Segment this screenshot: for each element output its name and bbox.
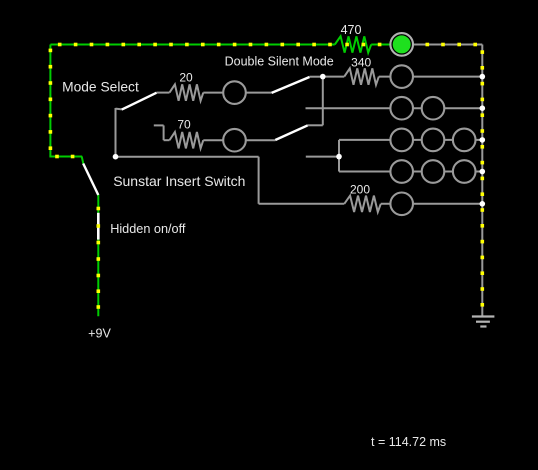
resistor R3 20: [170, 84, 204, 100]
wire S2b up-throw lead: [308, 124, 323, 126]
switch S1 Mode Select lever: [122, 93, 157, 110]
wire R2 to right rail: [379, 76, 483, 78]
wire S2a/S2b throw link vertical: [322, 77, 324, 126]
wire hook to R4: [164, 139, 170, 141]
wire S1 down-throw hook vertical: [163, 125, 165, 140]
junction right rail row2: [480, 74, 486, 80]
wire row5 to right rail: [339, 171, 482, 173]
svg-text:t = 114.72 ms: t = 114.72 ms: [371, 435, 446, 449]
wire left rail horizontal jog: [49, 156, 82, 158]
wire right rail vertical (ground net): [481, 45, 483, 316]
junction right rail row3: [480, 105, 486, 111]
wire S1 pivot stub: [116, 108, 122, 111]
junction right rail row4: [480, 137, 486, 143]
current dots right rail: [481, 66, 485, 307]
LED D1 (lit, green): [390, 33, 413, 56]
wire Sunstar net to R5: [259, 203, 345, 205]
junction right rail row5: [480, 169, 486, 175]
svg-text:470: 470: [341, 23, 362, 37]
ground: [472, 317, 495, 327]
junction Sunstar node: [113, 154, 119, 160]
svg-text:Double Silent Mode: Double Silent Mode: [225, 54, 334, 68]
junction node A (row2): [320, 74, 326, 80]
wire S1 up-throw to R3: [157, 92, 170, 94]
switch S3 Hidden on/off (closed): [97, 213, 100, 240]
LED D5: [390, 129, 413, 152]
svg-text:+9V: +9V: [88, 327, 111, 341]
svg-text:200: 200: [350, 182, 370, 196]
wire S2 down-throw lead: [306, 156, 339, 158]
wire to +9V rail: [97, 239, 99, 316]
wire LED1 to right rail: [413, 44, 482, 46]
LED D11: [390, 193, 413, 216]
LED D7: [453, 129, 476, 152]
wire R1 to LED1: [371, 44, 390, 46]
LED D2: [390, 65, 413, 88]
wire R5 to right rail: [381, 203, 483, 205]
LED D12: [223, 81, 246, 104]
current dots bottom supply: [97, 207, 101, 309]
LED D13: [223, 129, 246, 152]
LED D3: [390, 97, 413, 120]
wire above Hidden switch: [97, 195, 99, 214]
current dots left rail: [49, 49, 53, 150]
current dots LED1 to corner: [426, 43, 485, 54]
LED D10: [453, 160, 476, 183]
LED D9: [422, 160, 445, 183]
wire Sunstar vertical: [258, 157, 260, 204]
wire S1 common to Sunstar junction: [115, 108, 117, 157]
current dots left jog: [55, 155, 74, 159]
LED D4: [422, 97, 445, 120]
wire node A to R2: [323, 76, 345, 78]
wire left rail vertical: [49, 45, 51, 157]
switch S2b lever: [275, 125, 308, 140]
wire row3 to right rail: [306, 107, 483, 109]
svg-text:340: 340: [351, 55, 371, 69]
junction rows4-5 node: [336, 154, 342, 160]
LED D6: [422, 129, 445, 152]
wire jog stub: [82, 157, 84, 165]
current dots top rail: [58, 43, 332, 47]
current dots R1 region: [345, 43, 381, 47]
switch S2a lever: [272, 77, 310, 93]
resistor R1 470: [335, 36, 371, 52]
wire row4 to right rail: [339, 139, 482, 141]
svg-text:Sunstar Insert Switch: Sunstar Insert Switch: [113, 173, 245, 189]
wire Sunstar horizontal: [116, 156, 259, 158]
wire R3 to S2a common: [203, 92, 271, 94]
svg-text:Hidden on/off: Hidden on/off: [110, 222, 186, 236]
wire S1 down-throw hook horizontal: [154, 124, 164, 126]
resistor R2 340: [344, 68, 379, 84]
wire top rail (+9V net): [50, 44, 334, 46]
junction right rail row6: [480, 201, 486, 207]
wire bracket rows4-5: [338, 140, 340, 172]
wire R4 to S2b common: [203, 139, 275, 141]
resistor R5 200: [344, 196, 381, 212]
resistor R4 70: [170, 132, 204, 148]
wire S2a up-throw lead: [310, 76, 323, 78]
svg-text:70: 70: [177, 117, 191, 131]
switch lever diagonal (closed): [83, 164, 98, 196]
svg-text:Mode Select: Mode Select: [62, 79, 139, 94]
LED D8: [390, 160, 413, 183]
svg-text:20: 20: [179, 71, 193, 85]
